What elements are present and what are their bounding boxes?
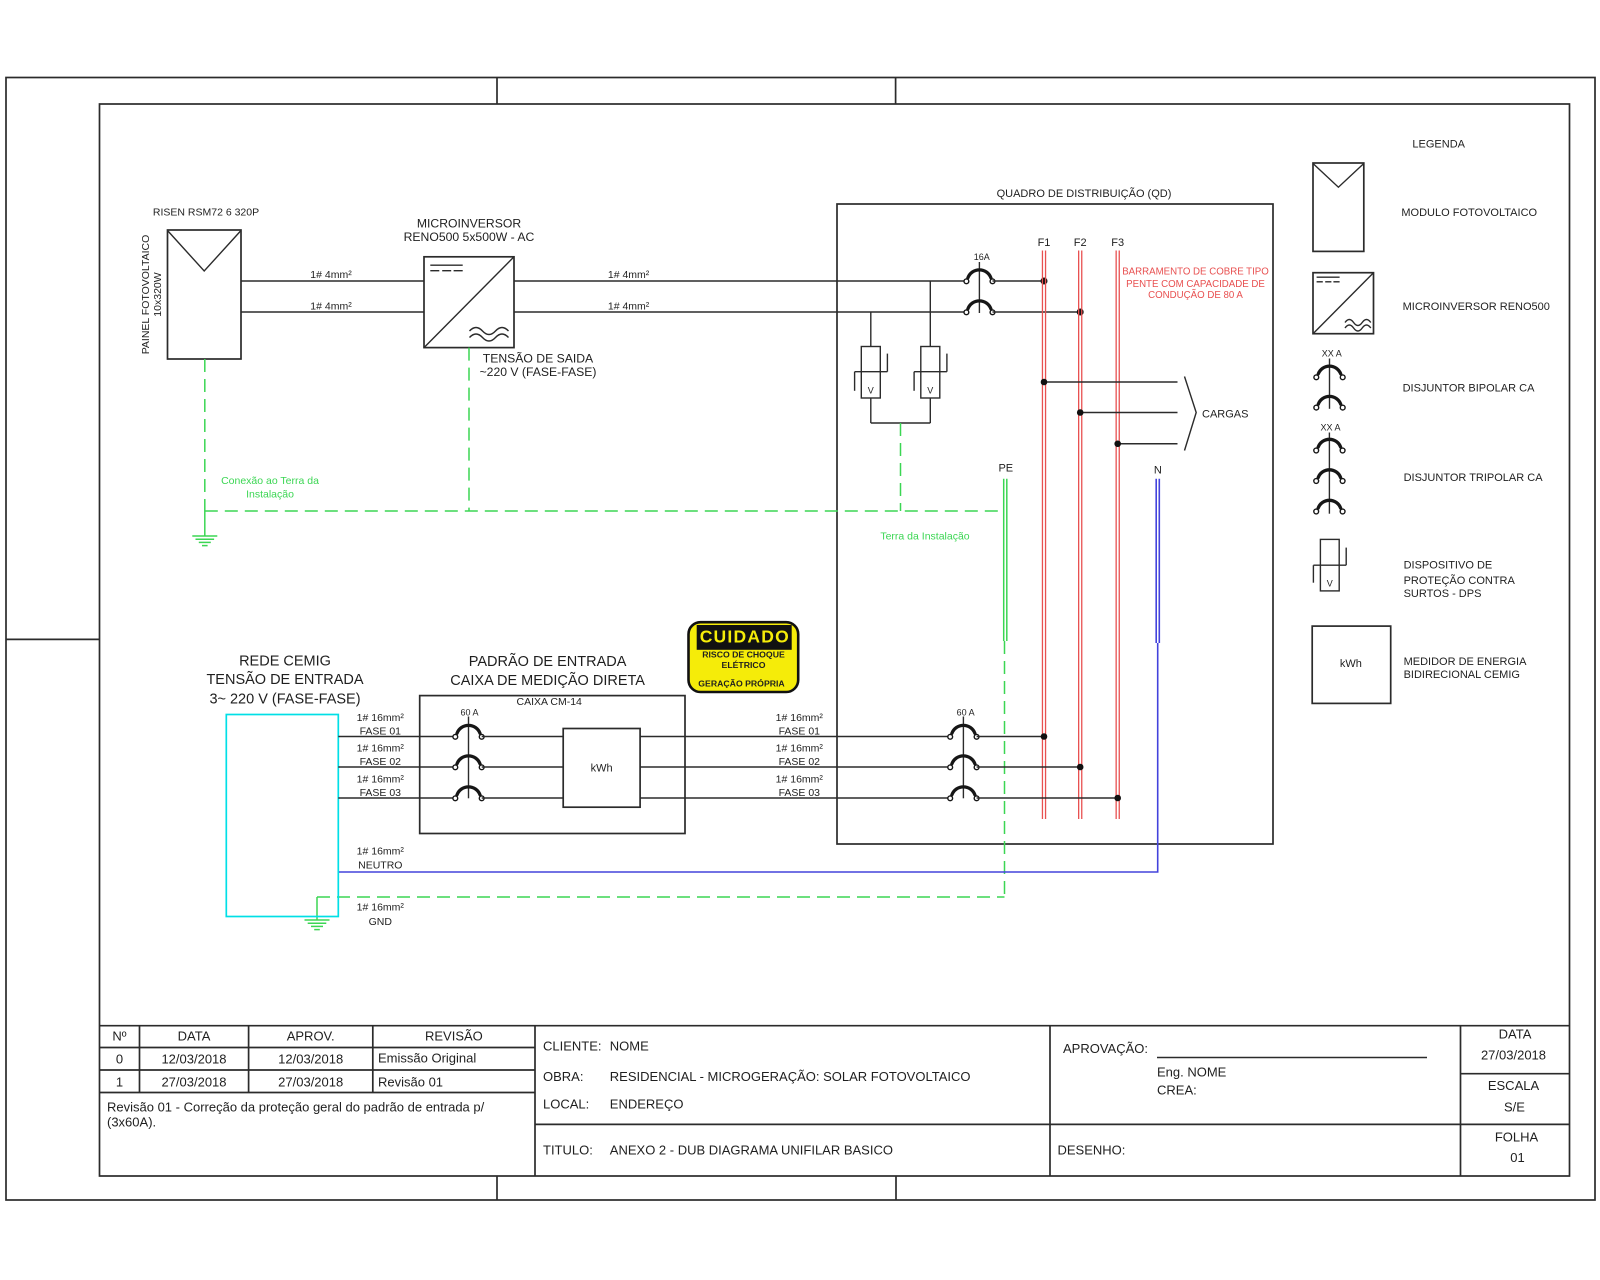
svg-text:FOLHA: FOLHA	[1495, 1130, 1539, 1145]
svg-text:PADRÃO DE ENTRADA: PADRÃO DE ENTRADA	[469, 653, 627, 670]
svg-text:NEUTRO: NEUTRO	[358, 860, 402, 872]
circuit breaker CB2 60A tripolar	[453, 717, 484, 801]
svg-text:F1: F1	[1038, 237, 1051, 249]
label PADRAO DE ENTRADA CAIXA DE MEDICAO DIRETA	[450, 653, 645, 689]
svg-text:QUADRO DE DISTRIBUIÇÃO (QD): QUADRO DE DISTRIBUIÇÃO (QD)	[997, 187, 1172, 200]
svg-text:ENDEREÇO: ENDEREÇO	[610, 1097, 684, 1112]
wire FASE 03 utility to breaker CB2	[338, 797, 455, 799]
svg-text:NOME: NOME	[610, 1038, 649, 1053]
wire green earth bus horizontal (dashed)	[205, 510, 1004, 512]
svg-text:DATA: DATA	[178, 1029, 211, 1044]
wire PV DC plus (panel to microinverter)	[241, 280, 424, 282]
svg-text:BIDIRECIONAL CEMIG: BIDIRECIONAL CEMIG	[1404, 669, 1520, 681]
svg-text:LOCAL:: LOCAL:	[543, 1097, 589, 1112]
svg-text:Terra da Instalação: Terra da Instalação	[880, 531, 969, 543]
legend symbol microinverter	[1313, 273, 1374, 334]
svg-text:60 A: 60 A	[460, 708, 478, 718]
wire CB2 pole2 to meter	[482, 766, 564, 768]
svg-text:Revisão 01 - Correção da prote: Revisão 01 - Correção da proteção geral …	[107, 1100, 485, 1115]
wire green DPS to earth bus (dashed)	[900, 423, 902, 511]
svg-text:N: N	[1154, 465, 1162, 477]
svg-text:DISJUNTOR BIPOLAR CA: DISJUNTOR BIPOLAR CA	[1403, 382, 1535, 394]
junction dot on F2	[1077, 309, 1084, 316]
svg-text:ESCALA: ESCALA	[1488, 1078, 1540, 1093]
ground symbol (service earth electrode, green)	[305, 920, 330, 930]
svg-text:1# 16mm²: 1# 16mm²	[776, 712, 824, 724]
legend symbol tripolar breaker XX A	[1314, 423, 1345, 514]
legend label DISPOSITIVO DE PROTECAO CONTRA SURTOS - DPS	[1404, 560, 1516, 600]
junction dot F2 feeder	[1077, 764, 1084, 771]
value label MICROINVERSOR RENO500 5x500W - AC	[404, 216, 535, 244]
annotation busbar note (red)	[1122, 267, 1269, 301]
svg-text:PENTE COM CAPACIDADE DE: PENTE COM CAPACIDADE DE	[1126, 279, 1265, 290]
junction dot feeder F1	[1041, 379, 1048, 386]
svg-text:FASE 02: FASE 02	[779, 756, 821, 768]
value label 1# 16mm2 FASE 01 (right)	[776, 712, 824, 738]
svg-text:1# 16mm²: 1# 16mm²	[776, 743, 824, 755]
busbar F3 (red)	[1116, 251, 1119, 820]
ground symbol (earth electrode, green)	[192, 536, 217, 546]
svg-text:1# 4mm²: 1# 4mm²	[608, 301, 650, 313]
junction dot feeder F2	[1077, 409, 1084, 416]
svg-text:OBRA:: OBRA:	[543, 1069, 583, 1084]
svg-text:FASE 03: FASE 03	[360, 787, 402, 799]
junction dot feeder F3	[1114, 440, 1121, 447]
svg-text:BARRAMENTO DE COBRE TIPO: BARRAMENTO DE COBRE TIPO	[1122, 267, 1269, 278]
wire FASE 02 utility to breaker CB2	[338, 766, 455, 768]
svg-text:Instalação: Instalação	[246, 488, 294, 500]
svg-text:DISJUNTOR TRIPOLAR CA: DISJUNTOR TRIPOLAR CA	[1404, 472, 1544, 484]
label Conexao ao Terra da Instalacao (green)	[221, 475, 319, 500]
svg-text:FASE 01: FASE 01	[779, 726, 821, 738]
svg-text:PE: PE	[998, 463, 1013, 475]
wire CB2 pole3 to meter	[482, 797, 564, 799]
svg-text:F3: F3	[1111, 237, 1124, 249]
svg-text:APROVAÇÃO:: APROVAÇÃO:	[1063, 1041, 1148, 1056]
junction dot on F1	[1041, 278, 1048, 285]
PV panel PV1 (PAINEL FOTOVOLTAICO RISEN RSM72 6 320P)	[168, 230, 242, 359]
value label 1# 16mm2 FASE 03 (right)	[776, 774, 824, 800]
svg-text:0: 0	[116, 1052, 123, 1067]
junction dot F3 feeder	[1114, 795, 1121, 802]
svg-text:1# 16mm²: 1# 16mm²	[357, 846, 405, 858]
wire neutral N busbar to service entrance (blue)	[338, 643, 1157, 872]
svg-text:APROV.: APROV.	[287, 1029, 335, 1044]
loads bracket CARGAS	[1185, 377, 1197, 451]
svg-text:1# 16mm²: 1# 16mm²	[357, 712, 405, 724]
svg-text:MODULO FOTOVOLTAICO: MODULO FOTOVOLTAICO	[1401, 207, 1537, 219]
circuit breaker CB3 60A tripolar	[948, 717, 979, 801]
wire FASE 03 meter to breaker CB3	[640, 797, 950, 799]
wire feeder from F1 to loads	[1044, 381, 1178, 383]
svg-text:ELÉTRICO: ELÉTRICO	[722, 660, 766, 670]
svg-text:1# 16mm²: 1# 16mm²	[357, 774, 405, 786]
svg-text:Emissão Original: Emissão Original	[378, 1051, 476, 1066]
svg-text:GERAÇÃO PRÓPRIA: GERAÇÃO PRÓPRIA	[698, 678, 785, 689]
svg-text:LEGENDA: LEGENDA	[1412, 138, 1465, 150]
svg-text:XX A: XX A	[1322, 349, 1342, 359]
value label PAINEL FOTOVOLTAICO 10x320W (vertical)	[140, 235, 164, 355]
svg-text:CARGAS: CARGAS	[1202, 409, 1248, 421]
svg-text:MICROINVERSOR: MICROINVERSOR	[417, 216, 521, 230]
label REDE CEMIG TENSAO DE ENTRADA	[206, 653, 363, 707]
svg-text:DATA: DATA	[1499, 1027, 1532, 1042]
title block	[100, 1026, 1570, 1176]
wire CB3 pole1 to busbar F1	[977, 736, 1044, 738]
svg-text:FASE 03: FASE 03	[779, 787, 821, 799]
svg-text:01: 01	[1510, 1150, 1524, 1165]
wire PV DC minus (panel to microinverter)	[241, 311, 424, 313]
svg-text:Conexão ao Terra da: Conexão ao Terra da	[221, 475, 319, 487]
svg-text:1# 4mm²: 1# 4mm²	[608, 269, 650, 281]
svg-text:3~ 220 V (FASE-FASE): 3~ 220 V (FASE-FASE)	[209, 692, 360, 708]
svg-text:CREA:: CREA:	[1157, 1083, 1197, 1098]
svg-text:60 A: 60 A	[957, 708, 975, 718]
value label 1# 16mm2 FASE 02 (left)	[357, 743, 405, 769]
wire green PE busbar down run (dashed)	[1004, 641, 1006, 897]
value label 1# 16mm2 NEUTRO	[357, 846, 405, 872]
wire feeder from F2 to loads	[1080, 412, 1177, 414]
energy meter M1 kWh	[563, 729, 640, 808]
svg-text:FASE 01: FASE 01	[360, 726, 402, 738]
svg-text:FASE 02: FASE 02	[360, 756, 402, 768]
svg-text:27/03/2018: 27/03/2018	[1481, 1047, 1546, 1062]
svg-text:27/03/2018: 27/03/2018	[161, 1075, 226, 1090]
svg-text:Eng. NOME: Eng. NOME	[1157, 1065, 1227, 1080]
svg-text:1# 16mm²: 1# 16mm²	[357, 902, 405, 914]
svg-text:kWh: kWh	[1340, 658, 1362, 670]
junction dot F1 feeder	[1041, 733, 1048, 740]
svg-text:27/03/2018: 27/03/2018	[278, 1075, 343, 1090]
value label 1# 16mm2 FASE 02 (right)	[776, 743, 824, 769]
microinverter U1 (MICROINVERSOR RENO500)	[424, 257, 514, 348]
value label 1# 16mm2 FASE 03 (left)	[357, 774, 405, 800]
busbar F2 (red)	[1079, 251, 1082, 820]
wire AC line 2 (microinverter to breaker CB1)	[514, 311, 966, 313]
surge protection device DPS2	[914, 281, 947, 423]
svg-text:12/03/2018: 12/03/2018	[161, 1052, 226, 1067]
svg-text:DESENHO:: DESENHO:	[1058, 1143, 1126, 1158]
svg-text:TITULO:: TITULO:	[543, 1143, 593, 1158]
svg-text:(3x60A).: (3x60A).	[107, 1115, 156, 1130]
circuit breaker CB1 16A bipolar	[964, 262, 995, 315]
svg-text:V: V	[927, 386, 933, 396]
svg-text:1: 1	[116, 1075, 123, 1090]
svg-text:TENSÃO DE SAIDA: TENSÃO DE SAIDA	[483, 351, 594, 365]
svg-text:TENSÃO DE ENTRADA: TENSÃO DE ENTRADA	[206, 671, 363, 688]
wire green drop to service earth electrode	[316, 897, 318, 920]
wire DPS common bottom connector	[871, 422, 931, 424]
wire green drop to earth electrode	[204, 511, 206, 536]
wire CB3 pole2 to busbar F2	[977, 766, 1081, 768]
svg-text:REDE CEMIG: REDE CEMIG	[239, 653, 331, 669]
svg-text:V: V	[868, 386, 874, 396]
svg-text:PAINEL FOTOVOLTAICO: PAINEL FOTOVOLTAICO	[140, 235, 152, 355]
svg-text:Nº: Nº	[112, 1029, 126, 1044]
svg-text:~220 V (FASE-FASE): ~220 V (FASE-FASE)	[480, 365, 597, 379]
wire green microinverter to earth bus (dashed)	[468, 348, 470, 511]
svg-text:Revisão 01: Revisão 01	[378, 1075, 443, 1090]
svg-text:RISCO DE CHOQUE: RISCO DE CHOQUE	[702, 650, 785, 660]
svg-text:RISEN RSM72 6 320P: RISEN RSM72 6 320P	[153, 207, 259, 219]
svg-text:RESIDENCIAL - MICROGERAÇÃO: SO: RESIDENCIAL - MICROGERAÇÃO: SOLAR FOTOVO…	[610, 1069, 971, 1084]
svg-text:1# 16mm²: 1# 16mm²	[776, 774, 824, 786]
wire AC line 1 (microinverter to breaker CB1)	[514, 280, 966, 282]
svg-text:DISPOSITIVO DE: DISPOSITIVO DE	[1404, 560, 1493, 572]
warning sign CUIDADO	[689, 622, 799, 692]
svg-text:1# 4mm²: 1# 4mm²	[310, 301, 352, 313]
wire green GND horizontal run (dashed)	[317, 896, 1005, 898]
svg-text:CAIXA DE MEDIÇÃO DIRETA: CAIXA DE MEDIÇÃO DIRETA	[450, 672, 645, 689]
metering enclosure PADRAO DE ENTRADA CAIXA CM-14	[420, 696, 685, 834]
svg-text:1# 16mm²: 1# 16mm²	[357, 743, 405, 755]
svg-text:V: V	[1327, 579, 1333, 589]
svg-text:kWh: kWh	[591, 762, 613, 774]
wire feeder from F3 to loads	[1118, 443, 1178, 445]
svg-text:PROTEÇÃO CONTRA: PROTEÇÃO CONTRA	[1404, 574, 1516, 587]
wire breaker CB1 pole2 to busbar F2	[993, 311, 1081, 313]
svg-text:CAIXA CM-14: CAIXA CM-14	[517, 696, 583, 708]
utility source box REDE CEMIG (cyan)	[226, 715, 338, 917]
svg-text:MEDIDOR DE ENERGIA: MEDIDOR DE ENERGIA	[1404, 656, 1528, 668]
wire FASE 01 meter to breaker CB3	[640, 736, 950, 738]
svg-text:MICROINVERSOR RENO500: MICROINVERSOR RENO500	[1403, 301, 1550, 313]
legend symbol bipolar breaker XX A	[1314, 349, 1345, 410]
wire CB3 pole3 to busbar F3	[977, 797, 1118, 799]
legend symbol photovoltaic module	[1313, 163, 1364, 251]
busbar PE (green)	[1004, 479, 1007, 641]
legend symbol energy meter kWh	[1312, 626, 1391, 703]
svg-text:ANEXO 2 - DUB DIAGRAMA UNIFILA: ANEXO 2 - DUB DIAGRAMA UNIFILAR BASICO	[610, 1143, 893, 1158]
value label TENSAO DE SAIDA ~220 V (FASE-FASE)	[480, 351, 597, 379]
svg-text:GND: GND	[369, 916, 393, 928]
wire CB2 pole1 to meter	[482, 736, 564, 738]
legend symbol DPS	[1313, 539, 1346, 591]
svg-text:RENO500 5x500W - AC: RENO500 5x500W - AC	[404, 230, 535, 244]
wire breaker CB1 pole1 to busbar F1	[993, 280, 1045, 282]
wire green PV panel to earth bus (dashed)	[204, 359, 206, 511]
busbar F1 (red)	[1042, 251, 1045, 820]
busbar N (blue)	[1156, 479, 1159, 643]
svg-text:12/03/2018: 12/03/2018	[278, 1052, 343, 1067]
value label 1# 16mm2 FASE 01 (left)	[357, 712, 405, 738]
svg-text:S/E: S/E	[1504, 1100, 1525, 1115]
wire FASE 01 utility to breaker CB2	[338, 736, 455, 738]
svg-text:XX A: XX A	[1320, 423, 1340, 433]
svg-text:SURTOS - DPS: SURTOS - DPS	[1404, 588, 1482, 600]
surge protection device DPS1	[855, 312, 888, 423]
value label 1# 16mm2 GND	[357, 902, 405, 928]
legend label MEDIDOR DE ENERGIA BIDIRECIONAL CEMIG	[1404, 656, 1528, 681]
wire FASE 02 meter to breaker CB3	[640, 766, 950, 768]
svg-text:1# 4mm²: 1# 4mm²	[310, 269, 352, 281]
distribution board QD enclosure	[837, 204, 1273, 844]
svg-text:16A: 16A	[974, 252, 990, 262]
svg-text:CUIDADO: CUIDADO	[700, 626, 789, 646]
svg-text:CONDUÇÃO DE 80 A: CONDUÇÃO DE 80 A	[1148, 290, 1243, 301]
svg-text:CLIENTE:: CLIENTE:	[543, 1038, 602, 1053]
svg-text:10x320W: 10x320W	[152, 272, 164, 316]
svg-text:REVISÃO: REVISÃO	[425, 1029, 483, 1044]
svg-text:F2: F2	[1074, 237, 1087, 249]
